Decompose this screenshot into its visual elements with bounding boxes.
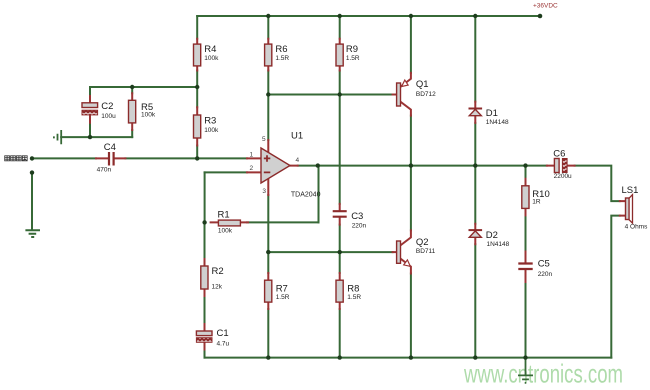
svg-text:1N4148: 1N4148 (486, 119, 509, 126)
wire R10 to C5 (525, 215, 527, 251)
wire input row left (32, 157, 96, 159)
svg-text:100k: 100k (141, 112, 156, 119)
svg-text:R9: R9 (346, 44, 358, 55)
node output/D1D2 (473, 163, 477, 167)
svg-text:12k: 12k (212, 284, 223, 291)
wire R5 top (131, 87, 133, 93)
capacitor C5 (518, 252, 532, 283)
node output/feedback (316, 163, 320, 167)
svg-text:1.5R: 1.5R (346, 55, 360, 62)
wire Q1 emitter to rail (410, 16, 412, 73)
svg-text:1.5R: 1.5R (347, 294, 361, 301)
svg-text:5: 5 (262, 136, 266, 143)
wire node to opamp pin5 (267, 95, 269, 141)
svg-text:1.5R: 1.5R (275, 55, 289, 62)
svg-text:1: 1 (250, 151, 254, 158)
node output/Q1Q2 (409, 163, 413, 167)
wire R6 top (267, 16, 269, 39)
wire R6 bottom to node (267, 71, 269, 95)
wire driver row bottom (268, 251, 392, 253)
wire top +36V rail (197, 15, 540, 17)
svg-text:C4: C4 (104, 142, 116, 153)
node pin3/driver row 2 (266, 250, 270, 254)
svg-text:R7: R7 (276, 283, 288, 294)
wire Q1 collector to output (410, 116, 412, 166)
svg-text:1.5R: 1.5R (276, 294, 290, 301)
wire opamp pin3 down (267, 195, 269, 273)
node rail/D1 (473, 14, 477, 18)
svg-text:100k: 100k (204, 55, 219, 62)
node input terminal (30, 156, 34, 160)
wire feedback row (247, 221, 319, 223)
wire D2 bottom (474, 244, 476, 357)
ground (input earth) (25, 230, 40, 237)
svg-text:C3: C3 (351, 211, 363, 222)
svg-text:Q2: Q2 (416, 237, 429, 248)
diode D2 (1N4148) (469, 224, 483, 245)
transistor Q1 (PNP BD712) (393, 73, 411, 116)
resistor R3 (194, 107, 201, 145)
resistor R6 (265, 39, 272, 71)
wire node to C3 (339, 95, 341, 204)
svg-text:R2: R2 (212, 266, 224, 277)
node R9/C3/driver row (338, 92, 342, 96)
svg-text:D2: D2 (486, 230, 498, 241)
wire R7 bottom (267, 309, 269, 358)
node R1/R2/pin2 (202, 220, 206, 224)
wire bottom rail (205, 357, 612, 359)
wire R10 top (525, 166, 527, 179)
power +36VDC terminal (538, 14, 543, 19)
node R4/R3 (195, 85, 199, 89)
node R3/input (195, 156, 199, 160)
svg-text:220n: 220n (352, 223, 367, 230)
wire output row (298, 165, 547, 167)
node R6/pin5/driver row (266, 92, 270, 96)
svg-text:BD712: BD712 (416, 91, 436, 98)
svg-text:R3: R3 (204, 116, 216, 127)
svg-text:4: 4 (296, 157, 300, 164)
wire R9 bottom to node (339, 71, 341, 95)
capacitor C2 (electrolytic) (82, 96, 98, 123)
wire C2 bottom to gnd row (89, 123, 91, 137)
capacitor C4 (96, 152, 125, 166)
svg-text:220n: 220n (538, 271, 553, 278)
svg-text:C6: C6 (553, 149, 565, 160)
svg-text:LS1: LS1 (622, 185, 639, 196)
wire C3 to node (339, 225, 341, 273)
resistor R8 (336, 273, 343, 309)
svg-text:BD711: BD711 (416, 248, 436, 255)
label audio input (5, 156, 28, 161)
svg-text:100k: 100k (218, 228, 233, 235)
wire R2 top (204, 222, 206, 259)
wire R3 bottom to input row (196, 146, 198, 159)
wire pin2 down to feedback (204, 172, 206, 222)
wire output to Q2 collector (410, 166, 412, 231)
node rail/R6 (266, 14, 270, 18)
wire speaker bottom return (611, 216, 620, 358)
svg-text:R6: R6 (275, 44, 287, 55)
node C2 bottom (88, 135, 92, 139)
wire Q2 emitter to rail (410, 274, 412, 358)
wire feedback up to output (318, 166, 320, 223)
signal ground at C2 (54, 130, 61, 144)
node output/R10 (523, 163, 527, 167)
resistor R10 (522, 179, 529, 216)
ground (bottom earth) (518, 358, 533, 383)
wire D1-D2 mid (474, 123, 476, 224)
resistor R4 (194, 39, 201, 71)
wire input row right to pin1 (125, 157, 247, 159)
svg-text:U1: U1 (291, 131, 303, 142)
svg-text:100k: 100k (204, 127, 219, 134)
svg-text:4 Ohms: 4 Ohms (625, 223, 649, 230)
wire gnd row to R5 bottom (61, 136, 132, 138)
resistor R5 (129, 93, 136, 130)
svg-text:470n: 470n (97, 167, 112, 174)
svg-text:+36VDC: +36VDC (533, 2, 558, 9)
node rail/R9 (338, 14, 342, 18)
op-amp U1 (247, 140, 298, 195)
svg-text:Q1: Q1 (416, 79, 429, 90)
wire R2 to C1 (204, 296, 206, 324)
node rail/D2 (473, 355, 477, 359)
svg-text:1R: 1R (532, 199, 541, 206)
svg-text:C1: C1 (217, 328, 229, 339)
resistor R2 (201, 259, 208, 296)
speaker LS1 (620, 195, 633, 224)
wire R5 bottom (131, 130, 133, 137)
node R5 top (130, 85, 134, 89)
svg-text:1N4148: 1N4148 (487, 241, 510, 248)
node rail/R8 (338, 355, 342, 359)
svg-text:2: 2 (250, 165, 254, 172)
wire C2 top stub (89, 87, 91, 96)
wire R9 top (339, 16, 341, 39)
svg-text:3: 3 (262, 188, 266, 195)
node rail/C5/gnd (523, 355, 527, 359)
svg-text:100u: 100u (101, 113, 116, 120)
wire R4 top from rail (196, 16, 198, 39)
wire C6 to speaker elbow (575, 166, 620, 202)
wire pin2 row (205, 171, 247, 173)
svg-text:TDA2040: TDA2040 (291, 192, 321, 199)
diode D1 (1N4148) (469, 102, 483, 123)
transistor Q2 (NPN BD711) (393, 230, 411, 273)
wire row C2/R5 top (90, 86, 197, 88)
svg-text:D1: D1 (486, 108, 498, 119)
wire input gnd drop (31, 173, 33, 230)
wire D1 top (474, 16, 476, 102)
wire driver row top (268, 94, 392, 96)
svg-text:2200u: 2200u (554, 173, 572, 180)
wire C1 bottom (204, 350, 206, 358)
resistor R7 (265, 273, 272, 309)
wire R8 bottom (339, 309, 341, 358)
svg-text:4.7u: 4.7u (217, 340, 230, 347)
node C3/R8 (338, 250, 342, 254)
svg-text:R4: R4 (204, 44, 216, 55)
node rail/R7 (266, 355, 270, 359)
capacitor C6 (electrolytic) (547, 159, 575, 173)
svg-text:www.cntronics.com: www.cntronics.com (463, 359, 623, 389)
wire R4-R3 gap (196, 71, 198, 108)
capacitor C3 (333, 204, 347, 225)
node rail/Q1e (409, 14, 413, 18)
node rail/Q2e (409, 355, 413, 359)
svg-text:C2: C2 (101, 101, 113, 112)
wire C5 bottom (525, 282, 527, 358)
resistor R1 (211, 220, 248, 226)
svg-text:R8: R8 (347, 283, 359, 294)
svg-text:R1: R1 (218, 209, 230, 220)
capacitor C1 (electrolytic) (196, 324, 212, 350)
svg-text:C5: C5 (538, 259, 550, 270)
node input gnd start (30, 170, 34, 174)
resistor R9 (336, 39, 343, 71)
